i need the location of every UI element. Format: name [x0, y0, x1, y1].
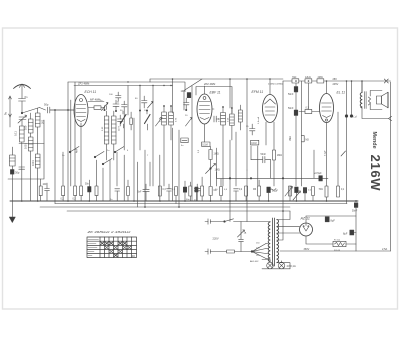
wire speaker bottom — [362, 108, 389, 119]
svg-text:4MΩ: 4MΩ — [318, 76, 323, 79]
svg-text:28V: 28V — [333, 78, 338, 81]
capacitor blob row x268 — [267, 187, 271, 201]
squiggle tone — [270, 189, 276, 191]
dial lamp La1 — [267, 260, 274, 269]
svg-text:0,11: 0,11 — [14, 131, 18, 136]
capacitor blob row x185 — [183, 181, 186, 201]
terminal bottom right — [389, 116, 392, 120]
resistor box 01M — [202, 124, 210, 146]
wire lamp2 stub — [281, 261, 283, 269]
resistor row r4 — [95, 186, 98, 201]
svg-text:EFM 11: EFM 11 — [252, 90, 264, 94]
bus second y203 — [55, 203, 347, 205]
tube EBF11 — [197, 94, 212, 124]
svg-text:12kΩ: 12kΩ — [305, 76, 311, 79]
wire x134 — [133, 118, 135, 201]
resistor 12k box — [305, 79, 312, 83]
capacitor small x186 — [184, 98, 190, 110]
node blobs band — [54, 105, 233, 112]
capacitor 10nF blob — [187, 93, 191, 98]
svg-text:50nF: 50nF — [288, 107, 294, 110]
switch mark right — [341, 151, 346, 156]
resistor row r1 — [62, 186, 65, 201]
resistor row x190 — [189, 182, 192, 201]
capacitor small left — [19, 167, 25, 169]
wave switch S1 — [21, 108, 39, 114]
capacitor 50p series — [40, 107, 75, 113]
transformer secondary — [277, 220, 279, 263]
bus third y207 — [40, 206, 290, 208]
IF2 coil b — [230, 108, 235, 140]
resistor 7k box — [292, 79, 299, 83]
B+ line — [306, 215, 356, 217]
dial lamp La2 — [278, 262, 285, 269]
junction blob x346 — [345, 115, 348, 118]
resistor row x246 — [245, 186, 248, 201]
capacitor 50nF k — [294, 110, 298, 186]
wire EFM top — [269, 79, 271, 95]
resistor row x128 — [127, 180, 130, 201]
node E terminal arrow — [9, 96, 12, 117]
capacitor 30p — [10, 170, 14, 175]
output transformer secondary — [368, 97, 370, 105]
svg-text:ZF 468kHz 2·482kHz: ZF 468kHz 2·482kHz — [86, 230, 131, 234]
potentiometer P1 — [206, 160, 216, 174]
wire x308 — [308, 83, 310, 109]
IF1 coil b — [112, 116, 116, 144]
wire lamp bus — [262, 268, 290, 270]
svg-text:245V: 245V — [333, 83, 339, 86]
capacitor x144 — [142, 96, 148, 108]
tap heater top — [277, 211, 290, 220]
svg-text:Fe 1Ω: Fe 1Ω — [334, 239, 340, 241]
IF1 coil a — [104, 116, 108, 144]
wire AZ top — [305, 216, 307, 223]
wire x70 — [70, 100, 72, 186]
wire x270 avc — [270, 160, 272, 179]
resistor row x176 — [175, 187, 178, 204]
resistor row r2 — [74, 186, 77, 201]
capacitor row x296b — [295, 187, 299, 201]
svg-text:50nF: 50nF — [261, 153, 267, 156]
tap lamp line — [277, 263, 290, 269]
resistor R osc — [88, 106, 105, 110]
capacitor 50nF blob — [88, 180, 91, 201]
wire x145 — [144, 150, 146, 207]
wire left drop — [9, 117, 11, 127]
svg-text:EL 11: EL 11 — [337, 91, 346, 95]
fuse F1 — [210, 250, 252, 253]
transformer core — [272, 218, 274, 266]
transformer primary — [266, 222, 270, 262]
capacitor pair mid — [113, 100, 119, 111]
wire x128 — [127, 86, 129, 116]
wire x172 — [172, 79, 174, 201]
tube ECH11 — [74, 95, 88, 127]
wire fill x117 — [116, 152, 118, 186]
wire B+ down — [355, 207, 357, 251]
tap mid — [277, 211, 283, 240]
svg-text:5nF: 5nF — [138, 192, 143, 194]
svg-text:50nF: 50nF — [352, 211, 358, 213]
resistor row x259 — [258, 180, 261, 201]
wire x184 — [183, 91, 185, 111]
wire link lower — [8, 120, 44, 179]
wire EBF top — [204, 86, 206, 94]
diode line AVC — [217, 172, 329, 179]
speaker frame — [370, 91, 382, 110]
svg-text:1,4 mA: 1,4 mA — [257, 117, 260, 124]
band switch a — [69, 147, 79, 153]
coil L1 — [20, 126, 25, 142]
svg-text:1MΩ: 1MΩ — [215, 169, 220, 172]
resistor M3 mid — [301, 136, 304, 142]
wire fill x216 — [216, 148, 218, 186]
wire MF line — [88, 101, 104, 103]
mains wire top with switch — [210, 219, 270, 223]
output transformer core — [365, 92, 367, 109]
wire x338 — [337, 112, 339, 186]
svg-text:1001: 1001 — [31, 160, 35, 166]
arrow mains adj — [238, 230, 245, 237]
wire fill x150 — [149, 162, 151, 186]
capacitor 6nF antenna — [19, 99, 26, 114]
svg-text:50p: 50p — [44, 103, 49, 107]
speaker cone mouth — [387, 92, 389, 107]
svg-text:201: 201 — [41, 119, 45, 124]
wire diag EBF grid — [184, 79, 202, 91]
wire x247 low — [246, 170, 248, 201]
capacitor plates 47 — [45, 183, 50, 201]
pot arrow x288 — [285, 186, 293, 196]
svg-text:4nF: 4nF — [75, 148, 79, 153]
svg-text:ZF2 468k: ZF2 468k — [203, 82, 216, 86]
svg-text:70Ω: 70Ω — [319, 189, 324, 191]
capacitor small x120 — [118, 115, 124, 126]
wire EL top — [326, 81, 328, 94]
pot arrow x296 — [293, 191, 301, 200]
svg-text:360V: 360V — [304, 248, 310, 251]
capacitor 50nF bus — [354, 203, 358, 208]
wire EFM down a — [265, 122, 267, 145]
coil L3a — [35, 108, 40, 127]
tube AZ11 — [300, 223, 313, 236]
trimmer arrow T2 — [156, 117, 163, 126]
wire x230 lower — [229, 140, 231, 201]
capacitor 50nF g2 — [294, 83, 298, 110]
svg-text:220V: 220V — [213, 237, 219, 241]
wire x230 — [229, 79, 231, 108]
resistor row x221 — [220, 179, 223, 201]
alignment table — [87, 237, 137, 258]
resistor row r3 — [80, 186, 83, 201]
junction dots top — [172, 78, 363, 82]
antenna A1 — [14, 84, 31, 99]
top line y79 — [150, 78, 283, 80]
svg-text:EBF 11: EBF 11 — [210, 91, 221, 95]
wire L1 to bus — [21, 142, 23, 201]
junction dots mid — [127, 81, 171, 86]
shield line upper — [68, 82, 185, 90]
wire osc mid — [97, 160, 111, 201]
wire fill x137 — [137, 162, 139, 207]
osc coil pair a — [162, 106, 167, 186]
capacitor 50nF mid — [251, 156, 271, 162]
wire grid ECH11 — [50, 109, 74, 111]
svg-text:1MΩ: 1MΩ — [290, 136, 292, 141]
top rail y81 — [283, 80, 386, 82]
capacitor elco row x213 — [209, 187, 212, 202]
resistor 1M efm — [272, 150, 275, 160]
svg-text:AEG 462: AEG 462 — [250, 260, 259, 263]
band switch d — [102, 159, 112, 165]
wire x192 — [191, 86, 193, 201]
tube EFM11 — [263, 95, 278, 123]
svg-text:4V 0,1A: 4V 0,1A — [287, 264, 296, 268]
svg-text:0,1µF: 0,1µF — [272, 191, 279, 193]
coil x240 — [238, 105, 242, 130]
tap AZ plate a — [277, 226, 300, 228]
mains plug top — [205, 219, 210, 224]
capacitor 100p x118 — [116, 92, 122, 101]
svg-text:2,5A: 2,5A — [382, 248, 387, 251]
capacitor mains — [239, 222, 244, 252]
svg-text:8µF: 8µF — [331, 220, 336, 223]
svg-text:AZ 11: AZ 11 — [300, 217, 310, 221]
trimmer x150 — [148, 101, 154, 108]
svg-text:50nF: 50nF — [288, 93, 294, 96]
table X marks — [101, 242, 132, 257]
junction blob x351 — [350, 115, 353, 118]
wire AZ bottom — [306, 236, 333, 244]
IF2 coil — [221, 107, 226, 186]
capacitor row c40 — [39, 179, 42, 201]
svg-text:0,1µF: 0,1µF — [325, 150, 327, 156]
capacitor row x169 — [167, 184, 172, 201]
svg-text:1MΩ: 1MΩ — [277, 154, 282, 157]
resistor 4M box — [317, 79, 324, 83]
svg-text:216W: 216W — [368, 155, 383, 192]
wire right edge — [390, 82, 392, 251]
resistor diagonal k1 — [121, 111, 127, 128]
capacitor 5nF row — [143, 184, 149, 201]
padder box — [10, 147, 16, 201]
resistor 03 box el — [299, 109, 320, 113]
capacitor x252 — [250, 124, 256, 135]
capacitor plates x197 — [194, 184, 200, 201]
wire x140 — [139, 86, 141, 151]
capacitor 8uF a — [325, 217, 329, 222]
resistor row x290 — [289, 186, 292, 196]
svg-text:10nF: 10nF — [181, 90, 187, 93]
ground symbol — [9, 201, 15, 223]
shield box ZF2 — [196, 87, 232, 114]
resistor row x326 — [325, 186, 328, 201]
wire fill x236 — [235, 132, 237, 186]
svg-text:1MΩ: 1MΩ — [214, 153, 219, 156]
resistor diagonal k2 — [145, 111, 151, 130]
wire IF1 down — [107, 111, 114, 160]
output transformer primary — [360, 81, 362, 108]
svg-text:ECH 11: ECH 11 — [85, 90, 97, 94]
svg-text:0,1MΩ 0,25MΩ: 0,1MΩ 0,25MΩ — [268, 83, 283, 85]
svg-text:20: 20 — [132, 254, 136, 258]
trimmer arrow T3 — [186, 117, 193, 126]
trimmer arrow T1 — [102, 102, 109, 110]
field coil Fe — [333, 241, 356, 246]
trimmer capacitor 3p — [18, 115, 27, 126]
resistor 03 row — [158, 186, 161, 201]
wire AVC vertical — [67, 82, 69, 201]
wire x290 heater — [289, 186, 291, 201]
wire lamp top — [262, 260, 270, 263]
wire corner x150 — [149, 79, 151, 82]
bus fourth y211 — [67, 210, 290, 212]
mains plug bottom — [205, 249, 210, 254]
svg-text:8µF: 8µF — [343, 233, 348, 236]
wire x179 — [178, 130, 180, 207]
capacitor blob x196 — [195, 187, 198, 201]
shield line ZF1 — [74, 85, 173, 87]
svg-text:1001: 1001 — [24, 143, 28, 149]
wire switch row — [55, 82, 81, 204]
resistor row x313 — [312, 187, 315, 202]
svg-text:Mende: Mende — [371, 132, 377, 149]
wire x160 — [159, 155, 161, 201]
wire x153 — [152, 86, 154, 187]
wire EL down — [326, 123, 328, 187]
tube EL11 — [320, 94, 334, 123]
bus main y201 — [10, 200, 358, 202]
coupling box MF1 — [181, 138, 188, 143]
svg-text:1173: 1173 — [119, 126, 121, 131]
svg-text:ZF1 468k: ZF1 468k — [77, 82, 90, 86]
wire fill x301 — [301, 81, 303, 186]
table row labels — [88, 240, 99, 256]
capacitor row x118 — [115, 189, 120, 201]
wire x346 — [346, 81, 348, 204]
IF2 capacitor vert — [212, 109, 219, 122]
capacitor 05uF blob — [319, 176, 323, 181]
bottom bus power — [280, 250, 391, 252]
svg-text:0,1M: 0,1M — [251, 142, 256, 145]
svg-text:7kΩ: 7kΩ — [292, 76, 297, 79]
speaker driver — [376, 92, 388, 107]
wire heater drop b — [246, 201, 248, 222]
wire fill x314 — [313, 150, 315, 178]
capacitor blob row x305 — [303, 188, 306, 202]
svg-text:+0,5µF: +0,5µF — [314, 172, 322, 175]
voltage taps — [251, 244, 266, 259]
coil L3b — [35, 127, 40, 201]
terminal top right — [384, 79, 390, 83]
svg-text:30p: 30p — [15, 171, 20, 175]
svg-text:0,1M: 0,1M — [202, 144, 207, 147]
wire x351 — [351, 81, 353, 116]
capacitor 8uF b — [350, 230, 356, 235]
resistor small x131 — [130, 112, 133, 130]
junction dots bus — [21, 200, 357, 212]
resistor row x338 — [337, 186, 340, 197]
capacitor x124 — [122, 101, 128, 111]
resistor 1M vert — [209, 146, 212, 159]
wire pot down — [210, 169, 212, 187]
band switch b — [94, 152, 104, 158]
resistor box 01M b — [251, 140, 259, 186]
tap AZ plate b — [277, 232, 300, 234]
wire cross link — [19, 143, 44, 145]
coil L2b — [28, 133, 33, 201]
osc coil pair b — [169, 106, 174, 140]
svg-text:100: 100 — [24, 125, 28, 130]
wire EFM down b — [273, 122, 275, 186]
capacitor row x236 — [234, 189, 239, 201]
wire x247 — [246, 79, 248, 170]
wire fill x124 — [123, 111, 125, 201]
wire x283 B+ — [282, 81, 284, 211]
band switch c — [114, 147, 124, 153]
wire heater drop a — [229, 201, 231, 222]
coil L2a — [28, 113, 33, 133]
resistor row x202 — [201, 177, 204, 201]
